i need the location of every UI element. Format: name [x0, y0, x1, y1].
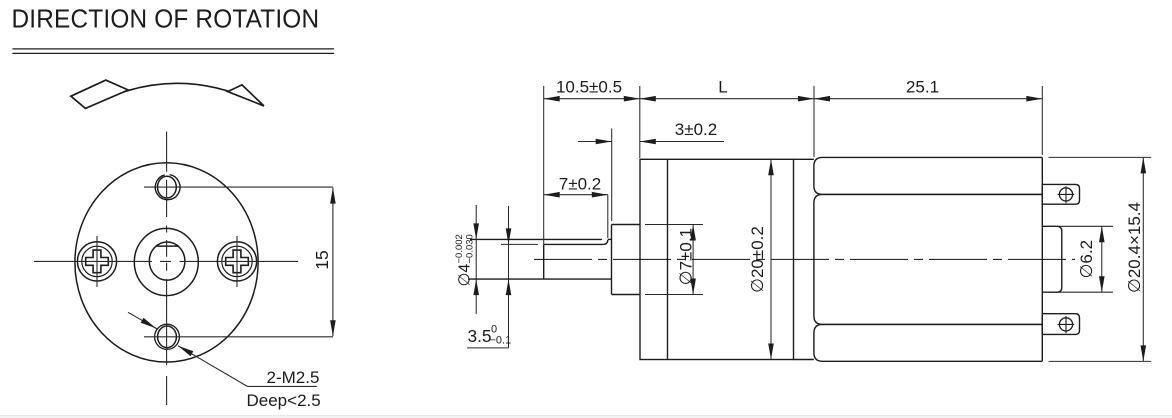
- svg-text:3±0.2: 3±0.2: [675, 120, 717, 139]
- dimension d6.2: [1048, 226, 1113, 292]
- dimension 7+-0.2: [544, 192, 608, 198]
- svg-text:L: L: [718, 77, 727, 96]
- motor top strip: [814, 157, 1042, 194]
- svg-text:∅20±0.2: ∅20±0.2: [748, 226, 767, 293]
- right screw head: [217, 242, 256, 281]
- shaft tip face: [543, 244, 545, 279]
- leader arrows to bottom hole: [128, 312, 317, 386]
- extension line motor rear: [1041, 86, 1043, 155]
- svg-text:2-M2.5: 2-M2.5: [267, 368, 320, 387]
- svg-text:∅20.4×15.4: ∅20.4×15.4: [1125, 202, 1144, 293]
- extension line gearbox front face: [639, 86, 641, 158]
- left screw vertical centerline: [96, 236, 98, 287]
- left screw head: [77, 242, 116, 281]
- dimension d7+-0.1: [645, 225, 703, 295]
- dimension 15 vertical line with arrows: [330, 188, 336, 337]
- bottom terminal hole: [1058, 316, 1075, 333]
- dimension 10.5+-0.5: [544, 96, 640, 102]
- svg-text:15: 15: [312, 250, 332, 269]
- top hole horizontal centerline / extension: [144, 186, 333, 188]
- extension line boss face (3+-0.2): [611, 129, 613, 222]
- svg-text:10.5±0.5: 10.5±0.5: [556, 77, 622, 96]
- svg-text:0: 0: [491, 323, 497, 335]
- motor bottom strip: [814, 324, 1042, 361]
- svg-text:7±0.2: 7±0.2: [559, 175, 601, 194]
- svg-text:∅4: ∅4: [457, 264, 474, 287]
- motor can body: [814, 157, 1042, 361]
- dimension 25.1: [814, 96, 1042, 102]
- top terminal tab: [1042, 184, 1079, 204]
- svg-text:∅7±0.1: ∅7±0.1: [677, 228, 696, 285]
- top terminal hole: [1058, 186, 1075, 203]
- dimension 3+-0.2: [578, 139, 724, 145]
- motor rear face: [1041, 157, 1043, 361]
- svg-text:DIRECTION OF ROTATION: DIRECTION OF ROTATION: [12, 5, 320, 34]
- front view horizontal centerline: [34, 260, 298, 262]
- gearbox body: [640, 159, 814, 359]
- svg-text:−0.030: −0.030: [465, 234, 476, 263]
- dimension d4 tolerance (shaft): [473, 205, 479, 314]
- extension line shaft tip: [543, 86, 545, 244]
- title double underline: [13, 49, 335, 54]
- dimension d20+-0.2: [768, 159, 774, 359]
- svg-text:25.1: 25.1: [906, 77, 939, 96]
- dimension d20.4x15.4: [1049, 157, 1152, 361]
- svg-text:Deep<2.5: Deep<2.5: [247, 391, 321, 410]
- shaft full-diameter silhouette top line: [470, 238, 602, 240]
- right screw vertical centerline: [236, 236, 238, 287]
- shaft outline: [468, 239, 612, 279]
- gearbox internal face line: [667, 159, 669, 359]
- shaft D-section circle with flat chord: [149, 242, 185, 280]
- shaft flat top line with runout fillet: [544, 240, 608, 245]
- dimension 3.5 0/-0.1: [467, 206, 538, 348]
- shaft bottom line (with extension to left): [468, 278, 612, 280]
- svg-text:3.5: 3.5: [468, 326, 492, 346]
- DIMENSIONS (side view): [544, 86, 1043, 244]
- center boss circle: [134, 228, 198, 295]
- rotation direction arc arrow: [71, 80, 264, 108]
- motor middle section: [814, 194, 1042, 324]
- front boss rectangle (d7): [612, 225, 641, 295]
- adapter ring top/bottom: [794, 158, 814, 160]
- svg-text:−0.1: −0.1: [490, 335, 512, 347]
- bottom mounting hole M2.5: [155, 324, 180, 349]
- front view vertical centerline: [166, 132, 168, 406]
- extension line motor front: [813, 86, 815, 157]
- bottom page band: [0, 416, 1172, 418]
- face outer ellipse: [75, 163, 258, 362]
- extension line flat end (7+-0.2): [607, 195, 609, 238]
- top mounting hole M2.5: [155, 175, 180, 200]
- bottom hole horizontal centerline / extension: [144, 336, 333, 338]
- svg-text:∅6.2: ∅6.2: [1077, 240, 1096, 278]
- rear bearing boss (d6.2): [1042, 226, 1062, 292]
- 3.5 extension lines: [501, 243, 538, 245]
- bottom terminal tab: [1042, 314, 1079, 335]
- svg-text:−0.002: −0.002: [454, 234, 465, 263]
- dimension L: [640, 96, 814, 102]
- side view main centerline: [534, 258, 1075, 260]
- dimension 15 text: [312, 250, 332, 269]
